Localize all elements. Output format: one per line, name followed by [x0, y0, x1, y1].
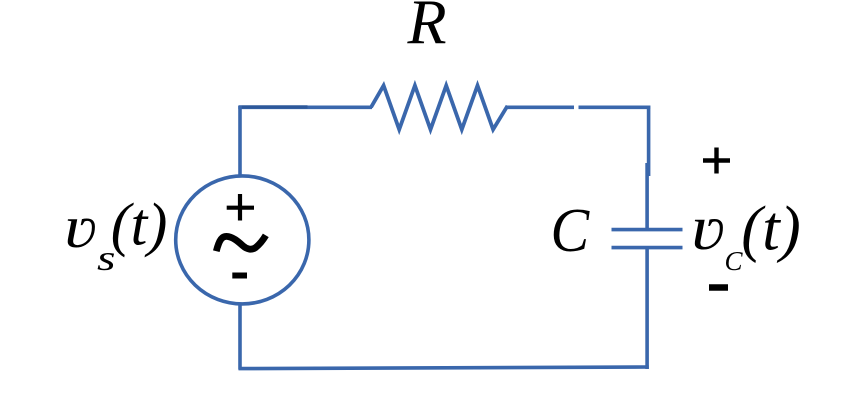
capacitor C top plate — [612, 228, 683, 232]
wire resistor right lead — [506, 106, 574, 110]
wire top-left overlap double-draw — [239, 105, 308, 108]
wire right vertical upper — [647, 106, 651, 177]
svg-text:(t): (t) — [111, 192, 168, 258]
minus sign right of capacitor — [709, 284, 728, 291]
capacitor C bottom plate — [612, 246, 683, 250]
wire right vertical lower — [645, 248, 649, 369]
wire top-right segment — [579, 106, 651, 110]
minus sign inside source — [232, 273, 247, 279]
svg-text:ʋ: ʋ — [691, 194, 725, 263]
wire top-left horizontal — [238, 106, 372, 110]
svg-text:C: C — [551, 196, 590, 266]
voltage source U1 circle — [176, 176, 309, 304]
wire left vertical (source top lead) — [238, 106, 242, 177]
svg-text:(t): (t) — [741, 194, 800, 264]
plus sign right of capacitor — [703, 148, 730, 174]
wire right vertical to capacitor — [645, 163, 649, 229]
sine tilde symbol inside source — [216, 235, 265, 251]
svg-text:R: R — [407, 0, 447, 58]
plus sign inside source — [227, 194, 254, 221]
wire bottom horizontal — [239, 367, 649, 369]
wire left vertical (source bottom lead) — [238, 304, 242, 370]
svg-text:ʋ: ʋ — [64, 194, 97, 261]
resistor R — [371, 86, 508, 130]
